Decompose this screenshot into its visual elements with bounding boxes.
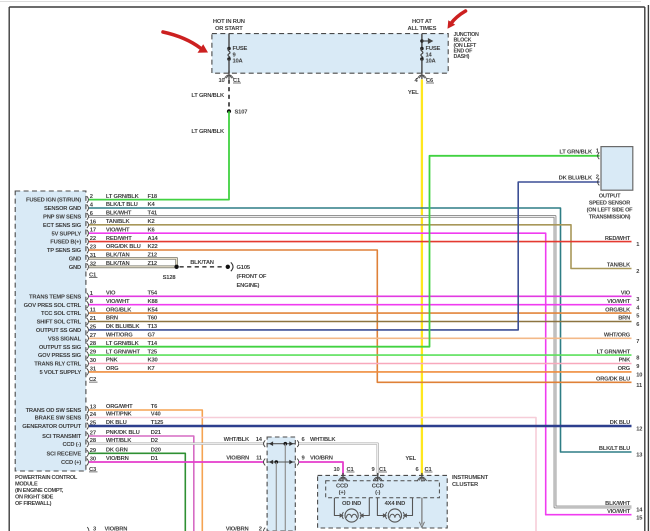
wire VIO/WHT (pin 8 to exit 4) bbox=[89, 304, 632, 306]
svg-text:CCD (-): CCD (-) bbox=[62, 442, 81, 448]
powertrain control module block bbox=[15, 191, 86, 471]
svg-text:SENSOR GND: SENSOR GND bbox=[44, 206, 81, 212]
PCM pin 1 (TRANS TEMP SENS VIO T54) bbox=[87, 293, 89, 300]
svg-text:LT GRN/BLK: LT GRN/BLK bbox=[191, 93, 225, 99]
svg-text:CCD (+): CCD (+) bbox=[61, 460, 81, 466]
PCM pin 30 (TRANS RLY CTRL PNK K30) bbox=[87, 360, 89, 367]
wire LT GRN/WHT (pin 29 to exit 8) bbox=[89, 354, 632, 356]
wire ORG/BLK (pin 11 to exit 5) bbox=[89, 312, 632, 314]
wire ORG (pin 31 to exit 10) bbox=[89, 371, 632, 373]
svg-text:ECT SENS SIG: ECT SENS SIG bbox=[43, 223, 82, 229]
svg-text:TAN/BLK: TAN/BLK bbox=[607, 263, 631, 269]
wire WHT/PNK (pin 24 down off page) bbox=[89, 418, 536, 531]
svg-text:11: 11 bbox=[636, 383, 642, 389]
svg-text:10: 10 bbox=[636, 373, 642, 379]
wire (inside connector, down from VIO/BRN) bbox=[275, 462, 277, 531]
svg-text:9: 9 bbox=[636, 364, 639, 370]
splice S128 bbox=[174, 265, 178, 269]
svg-text:OD IND: OD IND bbox=[342, 501, 361, 507]
wire BLK/WHT (pin 6 to exit 14) bbox=[89, 216, 632, 507]
svg-text:BLK/LT BLU: BLK/LT BLU bbox=[599, 446, 630, 452]
svg-text:POWERTRAIN CONTROL: POWERTRAIN CONTROL bbox=[15, 475, 78, 481]
svg-text:LT GRN/BLK: LT GRN/BLK bbox=[106, 194, 140, 200]
svg-text:2: 2 bbox=[259, 527, 262, 531]
wire PNK/DK BLU (pin 27 down off page) bbox=[89, 436, 194, 531]
svg-text:FUSE: FUSE bbox=[426, 46, 441, 52]
connector C6 (fuse 14 output) pin 4 bbox=[421, 71, 423, 80]
PCM pin 11 (TCC SOL CTRL ORG/BLK K54) bbox=[87, 310, 89, 317]
instrument cluster block bbox=[318, 475, 448, 528]
splice S107 bbox=[227, 109, 231, 113]
svg-text:BRAKE SW SENS: BRAKE SW SENS bbox=[35, 416, 82, 422]
wire RED/WHT (pin 22 to exit 1) bbox=[89, 241, 632, 243]
wire PNK (pin 30 to exit 9) bbox=[89, 363, 632, 365]
wire BLK/TAN (pin 32 to S128) bbox=[89, 265, 177, 268]
svg-text:ENGINE): ENGINE) bbox=[237, 283, 260, 289]
svg-text:ON RIGHT SIDE: ON RIGHT SIDE bbox=[15, 495, 54, 501]
svg-text:VIO/BRN: VIO/BRN bbox=[226, 456, 249, 462]
bottom cut row VIO/BRN pin 3 to pin 2 bbox=[87, 527, 89, 531]
PCM pin 29 (GOV PRESS SIG LT GRN/WHT T25) bbox=[87, 352, 89, 359]
svg-text:(ON LEFT SIDE OF: (ON LEFT SIDE OF bbox=[587, 207, 634, 213]
svg-text:VSS SIGNAL: VSS SIGNAL bbox=[48, 336, 82, 342]
wire bracket OD IND bbox=[334, 498, 340, 516]
svg-text:SPEED SENSOR: SPEED SENSOR bbox=[589, 200, 630, 206]
wire VIO (pin 1 to exit 3) bbox=[89, 295, 632, 297]
svg-text:CLUSTER: CLUSTER bbox=[452, 482, 479, 488]
PCM pin 27 (VSS SIGNAL WHT/ORG G7) bbox=[87, 335, 89, 342]
CCD node box bbox=[326, 481, 440, 498]
svg-text:DASH): DASH) bbox=[454, 54, 470, 60]
wire ORG/WHT (pin 13 down off page) bbox=[89, 410, 202, 531]
svg-text:OUTPUT SS GND: OUTPUT SS GND bbox=[36, 328, 81, 334]
svg-text:BRN: BRN bbox=[618, 316, 630, 322]
svg-text:14: 14 bbox=[256, 437, 263, 443]
svg-text:PNP SW SENS: PNP SW SENS bbox=[43, 215, 81, 221]
svg-text:VIO: VIO bbox=[621, 291, 631, 297]
svg-text:3: 3 bbox=[636, 297, 639, 303]
PCM pin 28 (CCD (-) WHT/BLK D2) bbox=[87, 440, 89, 447]
PCM pin 23 (TP SENS SIG ORG/DK BLU K22) bbox=[87, 247, 89, 254]
svg-text:BLK/TAN: BLK/TAN bbox=[190, 260, 214, 266]
svg-text:ALL TIMES: ALL TIMES bbox=[408, 26, 437, 32]
wire DK BLU/BLK (pin 25 to speed sensor pin 2) bbox=[89, 182, 600, 330]
svg-text:HOT AT: HOT AT bbox=[412, 19, 432, 25]
svg-text:VIO/BRN: VIO/BRN bbox=[310, 456, 333, 462]
svg-text:TRANSMISSION): TRANSMISSION) bbox=[589, 214, 631, 220]
svg-text:GND: GND bbox=[69, 257, 81, 263]
svg-text:WHT/ORG: WHT/ORG bbox=[604, 333, 631, 339]
svg-text:10: 10 bbox=[218, 78, 224, 84]
svg-text:VIO/BRN: VIO/BRN bbox=[105, 527, 128, 531]
svg-text:WHT/BLK: WHT/BLK bbox=[310, 437, 336, 443]
svg-text:10A: 10A bbox=[426, 59, 437, 65]
svg-text:OUTPUT: OUTPUT bbox=[599, 193, 621, 199]
PCM pin 30 (CCD (+) VIO/BRN D1) bbox=[87, 459, 89, 466]
PCM pin 16 (ECT SENS SIG TAN/BLK K2) bbox=[87, 221, 89, 228]
page border frame bbox=[0, 1, 641, 3]
wire BLK/LT BLU (pin 4 to exit 13) bbox=[89, 208, 632, 452]
svg-text:SCI TRANSMIT: SCI TRANSMIT bbox=[42, 434, 81, 440]
svg-text:2: 2 bbox=[636, 269, 639, 275]
svg-text:8: 8 bbox=[636, 356, 639, 362]
PCM pin 17 (5V SUPPLY VIO/WHT K6) bbox=[87, 230, 89, 237]
svg-text:PNK: PNK bbox=[619, 358, 632, 364]
PCM pin 4 (SENSOR GND BLK/LT BLU K4) bbox=[87, 205, 89, 212]
wire VIO/BRN (pin 30 to connector pin 11) bbox=[89, 461, 264, 463]
svg-text:MODULE: MODULE bbox=[15, 482, 38, 488]
svg-text:GOV PRESS SIG: GOV PRESS SIG bbox=[38, 353, 82, 359]
svg-text:DK BLU/BLK: DK BLU/BLK bbox=[559, 176, 593, 182]
svg-text:FUSE: FUSE bbox=[233, 46, 248, 52]
svg-text:FUSED B(+): FUSED B(+) bbox=[50, 240, 81, 246]
PCM pin 2 (FUSED IGN (ST/RUN) LT GRN/BLK F18) bbox=[87, 196, 89, 203]
svg-text:G105: G105 bbox=[237, 265, 251, 271]
PCM pin 25 (OUTPUT SS GND DK BLU/BLK T13) bbox=[87, 327, 89, 334]
connector C1 (fuse 9 output) pin 10 bbox=[228, 71, 230, 80]
junction block bbox=[212, 34, 448, 74]
fuse F9 10A bbox=[228, 34, 230, 49]
svg-text:DK BLU: DK BLU bbox=[610, 420, 630, 426]
annotation red arrow left bbox=[163, 32, 201, 49]
svg-text:VIO/BRN: VIO/BRN bbox=[226, 527, 249, 531]
svg-text:6: 6 bbox=[636, 322, 639, 328]
svg-text:14: 14 bbox=[636, 508, 643, 514]
PCM pin 22 (FUSED B(+) RED/WHT A14) bbox=[87, 238, 89, 245]
svg-text:ORG/DK BLU: ORG/DK BLU bbox=[596, 377, 630, 383]
svg-text:(FRONT OF: (FRONT OF bbox=[237, 274, 267, 280]
svg-text:HOT IN RUN: HOT IN RUN bbox=[213, 19, 245, 25]
svg-text:TCC SOL CTRL: TCC SOL CTRL bbox=[41, 311, 82, 317]
wire VIO/WHT (pin 17 to exit 15) bbox=[89, 233, 632, 515]
wire BRN (pin 21 to exit 6) bbox=[89, 321, 632, 323]
svg-text:TRANS RLY CTRL: TRANS RLY CTRL bbox=[34, 362, 81, 368]
wire ORG/DK BLU (pin 23 to exit 11) bbox=[89, 250, 632, 382]
fuse F14 10A bbox=[421, 34, 423, 49]
svg-text:OF FIREWALL): OF FIREWALL) bbox=[15, 501, 52, 507]
PCM pin 31 (GND BLK/TAN Z12) bbox=[87, 255, 89, 262]
annotation red arrow right bbox=[451, 11, 466, 24]
svg-text:(IN ENGINE COMPT,: (IN ENGINE COMPT, bbox=[15, 488, 64, 494]
output speed sensor block bbox=[601, 147, 633, 191]
svg-text:2: 2 bbox=[90, 194, 93, 200]
svg-text:15: 15 bbox=[636, 515, 642, 521]
svg-text:GND: GND bbox=[69, 265, 81, 271]
svg-text:10: 10 bbox=[333, 467, 339, 473]
PCM pin 31 (5 VOLT SUPPLY ORG K7) bbox=[87, 369, 89, 376]
wire LT GRN/BLK (dashed run from C1 to S107) bbox=[228, 80, 230, 111]
svg-text:ORG: ORG bbox=[618, 366, 631, 372]
wire VIO/BRN (connector pin 9 to cluster 10 C1) bbox=[299, 462, 343, 475]
PCM pin 8 (GOV PRES SOL CTRL VIO/WHT K88) bbox=[87, 301, 89, 308]
svg-text:13: 13 bbox=[636, 453, 642, 459]
svg-text:11: 11 bbox=[256, 456, 263, 462]
svg-text:F18: F18 bbox=[148, 194, 158, 200]
svg-text:10A: 10A bbox=[233, 59, 244, 65]
wire DK GRN (pin 29 down off page) bbox=[89, 453, 185, 531]
wire WHT/BLK (connector pin 6 to cluster 9 C1) bbox=[299, 444, 378, 476]
PCM pin 32 (GND BLK/TAN Z12) bbox=[87, 263, 89, 270]
wire BLK/TAN (pin 31 to S128) bbox=[89, 258, 177, 266]
svg-text:RED/WHT: RED/WHT bbox=[605, 236, 631, 242]
svg-text:OR START: OR START bbox=[215, 26, 243, 32]
PCM pin 28 (OUTPUT SS SIG LT GRN/BLK T14) bbox=[87, 343, 89, 350]
PCM pin 13 (TRANS OD SW SENS ORG/WHT T6) bbox=[87, 407, 89, 414]
svg-text:VIO/WHT: VIO/WHT bbox=[607, 299, 631, 305]
svg-text:ORG/BLK: ORG/BLK bbox=[605, 307, 631, 313]
PCM pin 6 (PNP SW SENS BLK/WHT T41) bbox=[87, 213, 89, 220]
svg-text:TRANS TEMP SENS: TRANS TEMP SENS bbox=[29, 294, 81, 300]
svg-text:FUSED IGN (ST/RUN): FUSED IGN (ST/RUN) bbox=[26, 198, 81, 204]
svg-text:GOV PRES SOL CTRL: GOV PRES SOL CTRL bbox=[24, 303, 82, 309]
svg-text:VIO/WHT: VIO/WHT bbox=[607, 509, 631, 515]
svg-text:5 VOLT SUPPLY: 5 VOLT SUPPLY bbox=[39, 370, 81, 376]
svg-text:LT GRN/BLK: LT GRN/BLK bbox=[191, 129, 225, 135]
svg-text:S107: S107 bbox=[235, 110, 248, 116]
wire YEL (fuse 14 to instrument cluster) bbox=[421, 80, 423, 476]
svg-text:(+): (+) bbox=[339, 490, 346, 496]
wire DK BLU (pin 25 to exit 12) bbox=[89, 425, 632, 427]
PCM pin 21 (SHIFT SOL CTRL BRN T60) bbox=[87, 318, 89, 325]
ground G105 (FRONT OF ENGINE) bbox=[226, 265, 230, 269]
wire LT GRN/BLK (pin 28 to speed sensor pin 1) bbox=[89, 156, 600, 347]
svg-text:4X4 IND: 4X4 IND bbox=[385, 501, 406, 507]
svg-text:INSTRUMENT: INSTRUMENT bbox=[452, 475, 489, 481]
wire WHT/BLK (pin 28 to connector pin 14) bbox=[89, 443, 264, 445]
svg-text:CCD: CCD bbox=[372, 483, 384, 489]
svg-text:OUTPUT SS SIG: OUTPUT SS SIG bbox=[39, 345, 82, 351]
wire TAN/BLK (pin 16 to exit 2) bbox=[89, 225, 632, 269]
wire (inside connector, down from WHT/BLK) bbox=[284, 444, 286, 531]
svg-text:12: 12 bbox=[636, 427, 642, 433]
svg-text:(-): (-) bbox=[375, 490, 380, 496]
PCM pin 25 (GENERATOR OUTPUT DK BLU T125) bbox=[87, 423, 89, 430]
wire BLK/TAN (dashed S128 to G105) bbox=[180, 266, 225, 268]
wire (cluster internal, 6 C1 stub below connector) bbox=[421, 479, 423, 481]
svg-text:1: 1 bbox=[636, 242, 639, 248]
PCM pin 27 (SCI TRANSMIT PNK/DK BLU D21) bbox=[87, 433, 89, 440]
svg-text:CCD: CCD bbox=[336, 483, 348, 489]
svg-text:LT GRN/BLK: LT GRN/BLK bbox=[559, 149, 593, 155]
svg-text:LT GRN/WHT: LT GRN/WHT bbox=[597, 349, 631, 355]
PCM pin 24 (BRAKE SW SENS WHT/PNK V40) bbox=[87, 414, 89, 421]
svg-text:7: 7 bbox=[636, 339, 639, 345]
svg-text:YEL: YEL bbox=[408, 90, 419, 96]
in-line connector block bbox=[267, 437, 295, 531]
svg-text:GENERATOR OUTPUT: GENERATOR OUTPUT bbox=[22, 424, 81, 430]
wire bracket 4X4 IND bbox=[377, 498, 383, 516]
svg-text:SCI RECEIVE: SCI RECEIVE bbox=[46, 451, 81, 457]
wire LT GRN/BLK from S107 to PCM pin 2 bbox=[89, 111, 229, 199]
PCM pin 29 (SCI RECEIVE DK GRN D20) bbox=[87, 450, 89, 457]
svg-text:BLK/WHT: BLK/WHT bbox=[605, 501, 631, 507]
svg-text:WHT/BLK: WHT/BLK bbox=[224, 437, 250, 443]
svg-text:5V SUPPLY: 5V SUPPLY bbox=[51, 231, 81, 237]
svg-text:S128: S128 bbox=[163, 275, 177, 281]
svg-text:5: 5 bbox=[636, 314, 639, 320]
wire WHT/ORG (pin 27 to exit 7) bbox=[89, 337, 632, 339]
svg-text:SHIFT SOL CTRL: SHIFT SOL CTRL bbox=[37, 320, 82, 326]
svg-text:14: 14 bbox=[426, 52, 433, 58]
svg-text:YEL: YEL bbox=[405, 456, 416, 462]
wire (cluster internal down to bottom with arrow) bbox=[421, 498, 423, 525]
svg-text:TRANS OD SW SENS: TRANS OD SW SENS bbox=[26, 408, 82, 414]
svg-text:TP SENS SIG: TP SENS SIG bbox=[47, 248, 82, 254]
